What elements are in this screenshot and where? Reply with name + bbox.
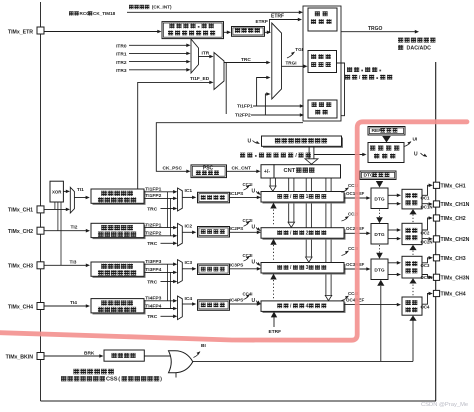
box plus minus xyxy=(261,165,274,178)
box prescaler ch2 xyxy=(198,227,230,238)
wire DTG dotted chain xyxy=(379,210,381,218)
svg-text:CK_TIM18: CK_TIM18 xyxy=(93,11,116,16)
svg-text:XOR: XOR xyxy=(52,189,62,194)
svg-text:U: U xyxy=(252,225,256,231)
svg-text:TRC: TRC xyxy=(147,314,158,320)
wire ETRF to trigger controller xyxy=(265,20,301,33)
wire TRC ch4 xyxy=(161,315,175,317)
box controller group xyxy=(303,6,341,121)
svg-text:TIMx_BKIN: TIMx_BKIN xyxy=(6,355,34,361)
pin TIMx_CH2N xyxy=(433,236,439,242)
svg-text:TI1FP2: TI1FP2 xyxy=(145,193,161,199)
svg-text:BRK: BRK xyxy=(84,351,95,357)
wire XOR inputs xyxy=(54,202,56,209)
wire left border xyxy=(40,2,42,401)
wire IC3PS arrowhead xyxy=(257,267,261,271)
box capture compare register 3 xyxy=(263,264,346,275)
wire OC1N xyxy=(422,203,430,205)
wire ITR xyxy=(199,56,212,58)
svg-text:TI2FP1: TI2FP1 xyxy=(145,222,161,228)
box PSC prescaler xyxy=(191,165,227,178)
wire counter bus to capture4 xyxy=(325,178,327,295)
svg-text:TI1: TI1 xyxy=(77,187,84,193)
wire OC4 xyxy=(422,294,430,305)
wire TRGO xyxy=(341,31,416,33)
wire TI1FP1 to encoder xyxy=(253,105,302,107)
svg-text:ITR3: ITR3 xyxy=(116,68,127,74)
svg-text:TRC: TRC xyxy=(147,241,158,247)
pin TIMx_CH3N xyxy=(433,274,439,280)
svg-text:TIMx_ETR: TIMx_ETR xyxy=(8,29,33,35)
svg-text:U: U xyxy=(252,298,256,304)
wire ETR xyxy=(44,31,159,33)
pin TIMx_CH1 xyxy=(433,182,439,188)
box DTG 2 xyxy=(371,224,388,245)
svg-text:TIMx_CH1: TIMx_CH1 xyxy=(441,184,466,190)
wire ETRF to trigger mux xyxy=(268,31,271,33)
wire XOR out xyxy=(63,190,67,192)
svg-text:TI1FP1: TI1FP1 xyxy=(145,187,161,193)
wire TRC xyxy=(224,62,268,64)
box trigger controller xyxy=(308,8,337,31)
wire IC4PS xyxy=(230,303,259,305)
wire FP cross 1-2 xyxy=(167,192,169,228)
wire TI3FP4 xyxy=(144,271,175,273)
wire IC2PS xyxy=(230,231,259,233)
svg-text:ITR: ITR xyxy=(202,51,210,57)
svg-text:TRC: TRC xyxy=(147,279,158,285)
svg-text:DTG: DTG xyxy=(374,197,384,203)
wire OC4REF xyxy=(344,304,399,306)
wire CK_INT xyxy=(127,11,302,13)
svg-text:(: ( xyxy=(118,377,120,383)
wire CK_CNT xyxy=(227,170,259,172)
wire CH1 to mux xyxy=(44,208,68,210)
svg-text:CSDN @Pray_Me: CSDN @Pray_Me xyxy=(421,402,468,408)
node internal clock CK_INT label xyxy=(129,5,134,9)
svg-text:TI1F_ED: TI1F_ED xyxy=(190,76,210,82)
wire right pin rail xyxy=(435,62,437,401)
box DTG 1 xyxy=(371,188,388,209)
svg-text:IC3: IC3 xyxy=(185,260,193,266)
svg-text:DTG: DTG xyxy=(374,232,384,238)
wire IC3 xyxy=(182,268,194,270)
mux TRGI selector xyxy=(272,23,282,99)
box DTG register xyxy=(360,171,396,180)
wire ETRF clear dashed xyxy=(273,210,275,227)
svg-text:IC4PS: IC4PS xyxy=(230,298,245,304)
svg-text:OC2N: OC2N xyxy=(421,239,433,244)
svg-text:ITR2: ITR2 xyxy=(116,60,127,66)
box repetition counter xyxy=(368,143,404,163)
svg-text:OC4: OC4 xyxy=(421,305,430,310)
svg-text:IC3PS: IC3PS xyxy=(230,262,245,268)
svg-text:4: 4 xyxy=(306,304,309,310)
node to other timers text xyxy=(398,38,403,43)
box output control 4 xyxy=(402,297,422,315)
wire TI1FP1 to slave mux xyxy=(257,78,268,107)
box capture compare register 4 xyxy=(263,302,346,313)
svg-text:TI4: TI4 xyxy=(70,300,77,306)
svg-text:CK_CNT: CK_CNT xyxy=(232,165,252,171)
svg-text:TIMx_CH3: TIMx_CH3 xyxy=(441,256,466,262)
mux trigger input selector xyxy=(214,53,224,90)
node CK_TIM18 source text xyxy=(69,11,74,15)
wire TI3 xyxy=(44,264,88,266)
node CSS source text xyxy=(61,376,67,381)
wire IC1PS arrowhead xyxy=(257,196,261,200)
svg-text:ITR1: ITR1 xyxy=(116,52,127,58)
svg-text:U: U xyxy=(248,139,252,145)
box input filter edge detector 2 xyxy=(93,225,146,239)
box prescaler ch4 xyxy=(198,300,230,311)
svg-text:TI1FP1: TI1FP1 xyxy=(237,104,253,110)
svg-text:ETRP: ETRP xyxy=(256,19,268,24)
pin TIMx_CH4 xyxy=(433,290,439,296)
wire IC1 xyxy=(182,196,194,198)
wire DTG1 outputs xyxy=(388,194,399,196)
wire OC2N xyxy=(422,238,430,240)
wire DTG3 outputs xyxy=(388,262,399,264)
wire BI rail xyxy=(412,321,414,362)
svg-text:OC3: OC3 xyxy=(421,263,430,268)
svg-text:TIMx_CH2N: TIMx_CH2N xyxy=(441,237,470,243)
gate OR break xyxy=(169,351,193,373)
svg-text:IC4: IC4 xyxy=(185,296,193,302)
svg-text:DAC/ADC: DAC/ADC xyxy=(407,45,432,51)
wire TRC ch3 xyxy=(161,281,175,283)
svg-text:OC1: OC1 xyxy=(421,196,430,201)
svg-text:BI: BI xyxy=(201,343,206,349)
wire OC3N xyxy=(422,275,430,278)
svg-text:U: U xyxy=(252,260,256,266)
box input filter xyxy=(232,27,265,37)
pin TIMx_CH1N xyxy=(433,201,439,207)
svg-text:TRGI: TRGI xyxy=(286,61,297,66)
wire TI2FP2 to encoder xyxy=(251,114,302,116)
box BRK polarity selection xyxy=(104,350,144,361)
wire IC4PS arrowhead xyxy=(257,302,261,306)
svg-text:TRGO: TRGO xyxy=(368,26,383,32)
svg-text:TIMx_CH2: TIMx_CH2 xyxy=(441,216,466,222)
wire clock failure into OR xyxy=(175,373,177,378)
annotation pink highlight xyxy=(0,122,467,340)
wire IC2 xyxy=(182,231,194,233)
svg-text:TIMx_CH2: TIMx_CH2 xyxy=(8,229,33,235)
box slave mode controller xyxy=(308,51,337,73)
wire counter bus to capture1 xyxy=(269,178,271,186)
svg-text:TI3FP4: TI3FP4 xyxy=(145,267,161,273)
wire TRC ch1 xyxy=(161,208,175,210)
wire IC4 xyxy=(182,303,194,305)
wire TI1F_ED xyxy=(138,82,211,188)
svg-text:TI2: TI2 xyxy=(71,225,78,231)
svg-text:U: U xyxy=(414,151,418,157)
pin TIMx_CH2 xyxy=(433,215,439,221)
svg-text:): ) xyxy=(160,377,162,383)
svg-text:TRC: TRC xyxy=(147,206,158,212)
mux IC3 selector xyxy=(178,260,183,284)
svg-text:TRC: TRC xyxy=(241,57,251,63)
wire DTG register to DTG1 xyxy=(376,181,383,188)
svg-text:TIMx_CH4: TIMx_CH4 xyxy=(441,292,466,298)
svg-text:IC2: IC2 xyxy=(185,224,193,230)
wire TRC branch down xyxy=(225,63,227,115)
box capture compare register 2 xyxy=(263,229,346,240)
svg-text:TIMx_CH3: TIMx_CH3 xyxy=(8,264,33,270)
svg-text:CK_PSC: CK_PSC xyxy=(163,165,183,171)
wire TRGI xyxy=(282,65,306,67)
svg-text:OC3N: OC3N xyxy=(421,275,433,280)
svg-text:IC1: IC1 xyxy=(185,188,193,194)
wire TI3FP3 xyxy=(144,263,175,265)
svg-text:ETRF: ETRF xyxy=(269,329,282,335)
wire BRK xyxy=(44,355,101,357)
wire counter bus to capture2 xyxy=(288,178,290,222)
wire counter bus to capture3 xyxy=(305,178,307,257)
wire slave mode to encoder bracket xyxy=(337,63,345,116)
box CNT counter xyxy=(274,165,341,178)
wire BI to DTG3 xyxy=(380,286,382,361)
box output control 2 xyxy=(402,223,422,244)
svg-text:TIMx_CH4: TIMx_CH4 xyxy=(8,304,33,310)
svg-text:ITR0: ITR0 xyxy=(116,44,127,50)
svg-text:TI3FP3: TI3FP3 xyxy=(145,259,161,265)
svg-text:3: 3 xyxy=(306,265,309,271)
wire TI4FP4 xyxy=(144,308,175,310)
wire IC2PS arrowhead xyxy=(257,231,261,235)
wire OC2REF xyxy=(344,232,369,234)
node slave mode outputs text xyxy=(347,67,352,72)
box input filter edge detector 3 xyxy=(93,264,146,278)
wire OC3 xyxy=(422,258,430,263)
wire TRC ch2 xyxy=(161,242,175,244)
wire OC1REF xyxy=(344,197,369,199)
wire ARR to CNT hollow arrow xyxy=(308,147,310,159)
wire IC3PS xyxy=(230,268,259,270)
svg-text:TGI: TGI xyxy=(295,47,303,52)
wire TI1FP2 xyxy=(144,197,175,199)
wire TI4 xyxy=(44,305,88,307)
svg-text:IC1PS: IC1PS xyxy=(230,191,245,197)
box REP register xyxy=(368,127,405,136)
mux IC2 selector xyxy=(178,223,183,246)
wire ETRF into capture4 xyxy=(273,317,275,327)
wire bottom border xyxy=(41,400,437,402)
svg-text:U: U xyxy=(252,189,256,195)
box ETR polarity selection and prescaler xyxy=(162,22,224,39)
mux ITR selector xyxy=(191,39,199,73)
svg-text:TIMx_CH1: TIMx_CH1 xyxy=(8,208,33,214)
svg-text:TI2FP2: TI2FP2 xyxy=(145,231,161,237)
wire BI arrows into output controls xyxy=(409,315,416,320)
box encoder interface xyxy=(308,100,337,118)
wire IC1PS xyxy=(230,196,259,198)
wire CK_PSC xyxy=(156,123,303,172)
svg-text:2: 2 xyxy=(306,230,309,236)
svg-text:OC1N: OC1N xyxy=(421,204,433,209)
mux IC4 selector xyxy=(178,296,183,320)
svg-text:(CK_INT): (CK_INT) xyxy=(152,5,172,10)
wire TI2FP2 xyxy=(144,235,175,237)
wire ARR to repetition counter xyxy=(314,154,364,156)
svg-text:+/-: +/- xyxy=(264,169,270,175)
box output control 3 xyxy=(402,256,422,278)
box input filter edge detector 1 xyxy=(93,191,146,205)
wire ETRP xyxy=(224,31,230,33)
pin TIMx_CH3 xyxy=(433,255,439,261)
svg-text:ETRF: ETRF xyxy=(271,14,284,20)
svg-text:TIMx_CH3N: TIMx_CH3N xyxy=(441,276,470,282)
box capture compare register 1 xyxy=(263,193,346,204)
wire TI1 xyxy=(74,197,87,199)
wire FP cross 3-4 xyxy=(167,264,169,301)
box prescaler ch3 xyxy=(198,264,230,275)
svg-text:CSS: CSS xyxy=(106,377,118,383)
wire REP to repetition counter xyxy=(382,136,391,143)
svg-text:CNT: CNT xyxy=(284,168,296,174)
wire OC3REF xyxy=(344,268,369,270)
svg-text:UI: UI xyxy=(413,137,418,143)
wire TI2FP1 xyxy=(144,227,175,229)
box auto reload register xyxy=(263,138,343,148)
svg-text:OC2: OC2 xyxy=(421,230,430,235)
wire DTG2 outputs xyxy=(388,229,399,231)
wire TI2 xyxy=(44,230,88,232)
node stop clear text xyxy=(240,153,245,158)
svg-text:TI4FP4: TI4FP4 xyxy=(145,303,161,309)
box DTG 3 xyxy=(371,259,388,280)
wire BI xyxy=(193,360,413,362)
gate XOR xyxy=(50,181,63,202)
wire OC2 xyxy=(422,218,430,230)
wire TI4FP3 xyxy=(144,300,175,302)
wire TI1FP1 xyxy=(144,191,175,193)
svg-text:IC2PS: IC2PS xyxy=(230,226,245,232)
mux TI1 xor selector xyxy=(70,187,74,213)
wire OC1 xyxy=(422,185,430,195)
wire TI2FP2 to slave mux xyxy=(265,94,268,115)
svg-text:DTG: DTG xyxy=(374,268,384,274)
wire polarity to OR gate xyxy=(144,355,171,357)
svg-text:TI3: TI3 xyxy=(70,259,77,265)
mux IC1 selector xyxy=(178,188,183,211)
svg-text:TI4FP3: TI4FP3 xyxy=(145,296,161,302)
box input filter edge detector 4 xyxy=(93,300,146,314)
box prescaler ch1 xyxy=(198,192,230,203)
svg-text:TI2FP2: TI2FP2 xyxy=(235,113,251,119)
svg-text:1: 1 xyxy=(306,194,309,200)
svg-text:TIMx_CH1N: TIMx_CH1N xyxy=(441,202,470,208)
box output control 1 xyxy=(402,189,422,209)
node clock failure text xyxy=(73,369,79,375)
